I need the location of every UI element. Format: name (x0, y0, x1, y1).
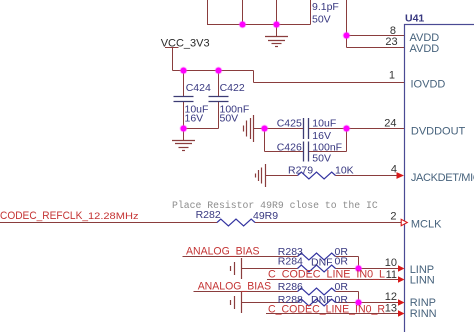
svg-text:23: 23 (385, 36, 397, 48)
svg-text:0R: 0R (335, 256, 349, 268)
svg-text:C426: C426 (277, 141, 302, 153)
svg-text:0R: 0R (335, 281, 349, 293)
svg-text:100nF: 100nF (312, 141, 342, 153)
svg-text:50V: 50V (312, 13, 331, 25)
svg-text:24: 24 (384, 117, 396, 129)
svg-text:16V: 16V (312, 130, 331, 142)
svg-text:8: 8 (390, 25, 396, 37)
svg-text:2: 2 (390, 211, 396, 223)
svg-text:9.1pF: 9.1pF (312, 1, 339, 13)
svg-text:AVDD: AVDD (410, 32, 440, 44)
svg-text:DVDDOUT: DVDDOUT (411, 126, 466, 138)
svg-text:10: 10 (385, 257, 397, 269)
svg-text:LINN: LINN (410, 275, 435, 287)
svg-text:MCLK: MCLK (411, 219, 442, 231)
svg-text:R279: R279 (288, 165, 313, 177)
svg-text:RINN: RINN (410, 308, 437, 320)
svg-text:12: 12 (385, 291, 397, 303)
svg-text:C422: C422 (220, 82, 245, 94)
svg-text:49R9: 49R9 (253, 210, 278, 222)
svg-text:DNF: DNF (311, 257, 333, 269)
svg-text:R286: R286 (278, 281, 303, 293)
svg-text:50V: 50V (220, 113, 239, 125)
svg-text:VCC_3V3: VCC_3V3 (161, 37, 210, 49)
svg-text:C_CODEC_LINE_IN0_R: C_CODEC_LINE_IN0_R (268, 304, 385, 316)
svg-text:C425: C425 (277, 117, 302, 129)
svg-text:C_CODEC_LINE_IN0_L: C_CODEC_LINE_IN0_L (268, 269, 385, 281)
svg-text:13: 13 (385, 302, 397, 314)
svg-text:U41: U41 (405, 13, 424, 25)
svg-text:ANALOG_BIAS: ANALOG_BIAS (186, 245, 260, 257)
svg-text:4: 4 (391, 163, 397, 175)
svg-text:CODEC_REFCLK_12.28MHz: CODEC_REFCLK_12.28MHz (0, 210, 139, 222)
svg-text:C424: C424 (186, 82, 211, 94)
svg-text:11: 11 (386, 269, 397, 281)
svg-text:ANALOG_BIAS: ANALOG_BIAS (198, 281, 272, 293)
svg-text:AVDD: AVDD (410, 43, 440, 55)
svg-text:1: 1 (389, 70, 395, 82)
svg-text:10uF: 10uF (312, 117, 336, 129)
svg-text:Place Resistor 49R9 close to t: Place Resistor 49R9 close to the IC (172, 200, 378, 211)
svg-text:JACKDET/MIC: JACKDET/MIC (411, 172, 474, 184)
svg-text:R284: R284 (278, 256, 303, 268)
svg-text:50V: 50V (312, 153, 331, 165)
svg-text:16V: 16V (185, 113, 204, 125)
svg-text:IOVDD: IOVDD (411, 79, 446, 91)
svg-text:10K: 10K (335, 165, 354, 177)
